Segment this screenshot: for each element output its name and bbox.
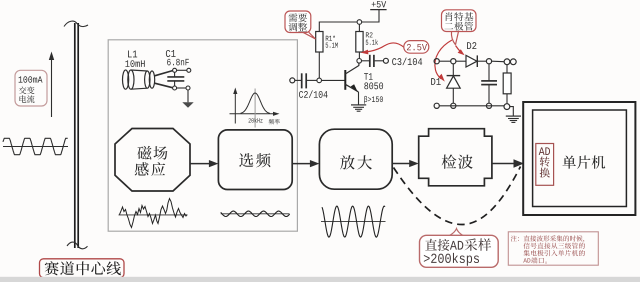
wire: base node to transistor bbox=[322, 79, 345, 81]
terminal: detector input top bbox=[434, 59, 439, 64]
wire: top rail bbox=[439, 60, 450, 62]
label 频率 bbox=[269, 119, 274, 124]
wire to ground bbox=[510, 107, 514, 117]
node: D1 bottom bbox=[451, 103, 456, 108]
block: 单片机 MCU double box bbox=[523, 102, 635, 215]
resistor R1 5.1M bbox=[316, 32, 323, 53]
waveform: filtered ripple under 选频 bbox=[221, 213, 290, 215]
wire: emitter to ground bbox=[358, 92, 360, 105]
module boundary box (sensor front-end) bbox=[108, 40, 297, 231]
terminal top bbox=[187, 68, 191, 72]
waveform: noisy signal under 磁场感应 bbox=[119, 214, 188, 216]
label box: 100mA 交变电流 (alternating current) bbox=[15, 70, 47, 106]
diode D2 (series) bbox=[467, 42, 471, 49]
ground (earth) detector bbox=[506, 115, 521, 117]
ground (arrow style) bbox=[187, 90, 189, 102]
wire: 100mA alternating-current waveform (clipped sine) bbox=[3, 138, 68, 154]
arrow: to 检波 bbox=[392, 163, 411, 165]
node: cap bottom bbox=[486, 103, 491, 108]
annotation: 需要调整 bubble bbox=[303, 32, 316, 39]
annotation box: 直接AD采样 >200ksps bbox=[420, 235, 499, 267]
node: supply rail bbox=[357, 20, 362, 25]
graph: horizontal axis 频率 bbox=[230, 113, 277, 115]
capacitor filter bbox=[488, 64, 490, 81]
inductor L1 10mH (drum core) bbox=[128, 51, 132, 58]
node: base bbox=[317, 78, 322, 83]
bottom gray strip bbox=[0, 277, 640, 282]
block: 磁场感应 octagon (magnetic field sensing) bbox=[115, 129, 190, 192]
ground (earth) under T1 bbox=[351, 104, 366, 106]
annotation note box bbox=[508, 232, 598, 265]
node: tank top bbox=[173, 68, 177, 72]
wire: +5V to rail bbox=[362, 10, 379, 22]
arrow: to 单片机 bbox=[492, 163, 515, 165]
transistor T1 8050 bbox=[344, 70, 346, 90]
dashed arrow: direct AD sampling path bbox=[394, 167, 521, 225]
annotation arrow to D2 bbox=[456, 46, 462, 53]
block: 放大 (amplifier) bbox=[319, 129, 392, 189]
waveform: amplified sine under 放大 bbox=[321, 221, 386, 223]
node: tank bottom bbox=[173, 86, 177, 90]
wire: bottom rail bbox=[439, 105, 504, 107]
annotation: brace tail bbox=[450, 229, 464, 236]
block: AD转换 (AD converter) bbox=[536, 144, 554, 186]
graph: bell curve bbox=[241, 93, 271, 113]
block: 选频 (frequency selection) bbox=[218, 130, 292, 190]
block: 检波 (detector) bbox=[419, 129, 492, 186]
label 20kHz bbox=[249, 118, 251, 122]
wire: R1 to base node bbox=[318, 52, 320, 78]
node: filter top bbox=[486, 59, 491, 64]
break squiggle bottom bbox=[67, 242, 88, 249]
arrow: current direction (upward) bbox=[51, 57, 53, 117]
graph: resonance curve, vertical axis bbox=[234, 91, 236, 124]
arrow: to 放大 bbox=[292, 163, 311, 165]
wire: tank outputs bbox=[177, 69, 187, 71]
annotation arrow to D1 bbox=[435, 40, 452, 79]
annotation: 2.5V oval with pointer to R2 bottom bbox=[366, 43, 404, 52]
diode D1 (shunt) bbox=[431, 78, 435, 85]
terminal: output bbox=[510, 59, 516, 65]
node: output junction bbox=[504, 59, 510, 65]
arrow: to 选频 bbox=[190, 163, 210, 165]
wire: inductor leads bbox=[155, 71, 173, 76]
label box: 赛道中心线 (track center line) bbox=[40, 259, 125, 278]
break squiggle top bbox=[64, 21, 88, 26]
capacitor C3/104 output bbox=[362, 60, 370, 62]
wire: node to R2 bbox=[358, 24, 360, 31]
resistor R2 5.1k bbox=[356, 32, 363, 53]
wire: track center line (double conductor) bbox=[74, 23, 76, 248]
terminal bottom bbox=[186, 86, 190, 90]
capacitor C1 6.8nF bbox=[166, 50, 170, 57]
graph: center frequency line bbox=[254, 89, 256, 128]
wire: rail to R1 bbox=[319, 22, 357, 32]
annotation: 肖特基二极管 bubble bbox=[451, 31, 458, 45]
node: ground junction bbox=[504, 104, 510, 110]
node: D1/D2 junction bbox=[451, 59, 456, 64]
node: collector bbox=[358, 52, 360, 59]
power +5V bbox=[372, 2, 376, 7]
resistor load bbox=[506, 65, 508, 73]
capacitor C2/104 input bbox=[290, 78, 295, 83]
terminal: bottom left bbox=[434, 103, 439, 108]
